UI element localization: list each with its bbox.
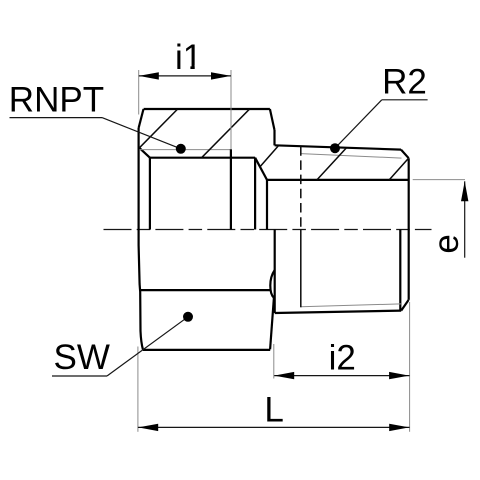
male bore edge vertical (266, 180, 268, 230)
bore entry edge vertical (149, 158, 151, 230)
svg-text:L: L (264, 391, 283, 430)
hex top-right chamfer arc (270, 109, 275, 130)
male thread hatch 3 (389, 158, 408, 180)
label R2 dot (330, 143, 340, 153)
svg-text:R2: R2 (382, 62, 427, 101)
female thread minor line (thin) (139, 149, 231, 151)
thread chamfer edge vertical (bottom view) (399, 230, 401, 311)
dimension L extension left (137, 347, 139, 432)
svg-text:RNPT: RNPT (9, 81, 104, 120)
dimension i2 arrow right (389, 372, 409, 379)
female thread hatch 1 (139, 110, 177, 148)
label SW underline (52, 375, 107, 377)
svg-text:i2: i2 (329, 339, 356, 378)
label RNPT leader (102, 118, 181, 149)
dimension i2 line (274, 375, 409, 377)
dimension i1 extension right (230, 70, 232, 150)
dimension L line (138, 426, 410, 428)
label RNPT dot (176, 144, 186, 154)
stub root edge (bottom view) (274, 230, 276, 314)
female thread hatch 2 (202, 109, 250, 157)
dimension L arrow left (138, 424, 158, 431)
hex top-left chamfer arc (139, 109, 144, 128)
centerline (104, 229, 432, 231)
dimension e arrow up (461, 181, 468, 201)
male end chamfer top (401, 150, 409, 159)
label RNPT underline (10, 117, 103, 119)
dimension i2 arrow left (274, 372, 294, 379)
label R2 underline (382, 99, 428, 101)
female thread end vertical (230, 149, 232, 229)
dimension i1 arrow left (139, 72, 159, 79)
hex left face edge (139, 128, 143, 349)
male thread crest line (tapered) (275, 145, 401, 149)
dimension i2 extension left (273, 344, 275, 379)
thread vanish line dashed (top half) (300, 146, 302, 229)
dimension L arrow right (389, 424, 409, 431)
svg-text:e: e (427, 234, 466, 253)
hex bottom edge (143, 349, 270, 351)
dimension i2 extension right (409, 302, 411, 432)
hex right silhouette lower (270, 298, 274, 350)
svg-text:SW: SW (54, 338, 110, 377)
male end face (408, 158, 410, 300)
svg-text:i1: i1 (175, 38, 202, 77)
dimension i1 arrow right (211, 72, 231, 79)
label SW dot (183, 312, 193, 322)
dimension e line (464, 181, 466, 257)
hex body top edge (section outer) (144, 108, 270, 110)
male thread minor line bottom (thin) (301, 304, 401, 307)
dimension e extension line (413, 179, 465, 181)
male bottom edge (tapered) (275, 311, 402, 313)
hex face boundary line (bottom view) (140, 289, 270, 291)
male thread hatch 1 (260, 146, 278, 167)
male thread hatch 2 (317, 148, 347, 180)
male thread minor line top (thin) (301, 154, 402, 159)
bore end cone chamfer (255, 158, 267, 180)
label R2 leader (335, 100, 382, 148)
hex right chamfer arc lens (270, 270, 274, 298)
male end chamfer bottom (401, 300, 408, 311)
female thread entry chamfer (139, 147, 150, 158)
hex right face edge upper (273, 130, 275, 145)
female bore end face vertical (254, 158, 256, 230)
thread vanish line solid (bottom half) (300, 230, 302, 308)
male through-bore line (267, 179, 409, 181)
female bore line (150, 157, 255, 159)
label SW leader (107, 317, 188, 376)
dimension i1 line (139, 75, 231, 77)
dimension i1 extension left (138, 70, 140, 115)
